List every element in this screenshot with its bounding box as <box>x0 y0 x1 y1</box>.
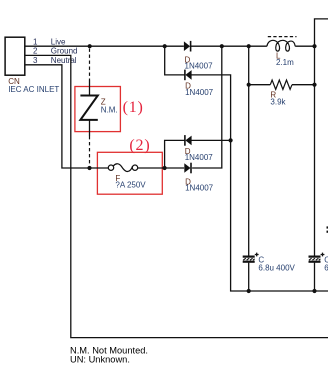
svg-text:1N4007: 1N4007 <box>185 88 214 97</box>
resistor R <box>270 80 292 89</box>
wire: Neutral stub down to fuse row <box>25 65 109 168</box>
svg-text:UN: Unknown.: UN: Unknown. <box>70 354 130 364</box>
wire: Live node down to D2 row <box>165 46 185 75</box>
capacitor C1 <box>243 256 255 258</box>
svg-text:1N4007: 1N4007 <box>185 153 214 162</box>
varistor Z dashed lead bottom <box>89 136 91 168</box>
wire: R row left <box>249 84 271 86</box>
wire: R row right <box>292 84 315 86</box>
svg-text:1: 1 <box>33 37 38 46</box>
wire: D3 row <box>165 140 185 168</box>
wire: fuse to D4 <box>138 167 185 169</box>
wire: D3 to DC- vertical <box>192 139 231 141</box>
varistor Z solid leads <box>89 80 91 95</box>
svg-text:Live: Live <box>51 37 66 46</box>
varistor Z dashed lead top <box>89 49 91 81</box>
svg-text:2.1m: 2.1m <box>276 58 294 67</box>
svg-text:IEC AC INLET: IEC AC INLET <box>8 85 59 94</box>
connector CN box <box>5 37 25 75</box>
wire: C1 bottom to rail <box>248 263 250 291</box>
wire: D2 to DC- vertical and bottom rail <box>192 75 328 291</box>
svg-text:1N4007: 1N4007 <box>185 184 214 193</box>
svg-text:N.M.: N.M. <box>101 105 118 114</box>
plus sign C2 <box>321 253 325 257</box>
svg-text:6.8u 400V: 6.8u 400V <box>324 264 328 273</box>
svg-text:?A 250V: ?A 250V <box>115 180 146 189</box>
svg-text:3.9k: 3.9k <box>270 97 286 106</box>
inductor shield dashed line <box>268 36 297 38</box>
svg-text:3: 3 <box>33 56 38 65</box>
varistor Z symbol <box>80 96 97 120</box>
svg-text:6.8u 400V: 6.8u 400V <box>258 264 295 273</box>
wire: node down through R to C1 <box>248 46 250 256</box>
diode D2 <box>185 70 191 80</box>
svg-text:Ground: Ground <box>51 47 78 56</box>
wire: right node down through R to C2 <box>314 46 316 256</box>
inductor L <box>267 40 295 51</box>
wire: Ground stub <box>25 55 328 337</box>
red highlight box 1 (varistor) <box>75 87 121 132</box>
fuse F symbol <box>108 165 113 170</box>
diode D1 <box>184 41 190 51</box>
wire: after inductor to right node <box>295 45 314 47</box>
capacitor C2 <box>309 256 321 258</box>
wire: top-right exit <box>315 19 328 46</box>
plus sign C1 <box>255 253 259 257</box>
svg-text:1N4007: 1N4007 <box>185 61 214 70</box>
svg-text:(1): (1) <box>123 99 144 116</box>
wire: C2 bottom to rail <box>314 263 316 291</box>
diode D3 <box>185 136 191 146</box>
svg-text:(2): (2) <box>129 137 150 154</box>
svg-text:2: 2 <box>33 47 38 56</box>
wire: D4 to vertical up to DC+ <box>192 46 222 168</box>
red highlight box 2 (fuse) <box>97 152 162 194</box>
junction node dots <box>88 44 92 48</box>
wire: Live line from connector to D1 <box>25 45 184 47</box>
edge marks (clipped dashes at right) <box>327 226 328 228</box>
wire: Live/DC+ line D1 to inductor <box>190 45 267 47</box>
diode D4 <box>184 163 190 173</box>
svg-text:Neutral: Neutral <box>51 56 77 65</box>
